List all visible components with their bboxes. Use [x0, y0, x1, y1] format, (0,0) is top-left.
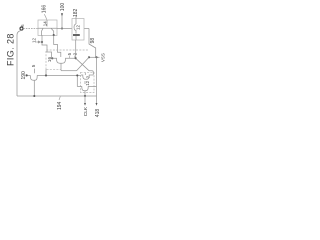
svg-text:5: 5 — [67, 52, 72, 55]
transistor Q2 source lead down — [60, 63, 62, 70]
svg-text:16: 16 — [47, 57, 53, 63]
wire: cross bottom-left going left to Q2 source — [61, 70, 77, 72]
arrowhead on supply lead — [61, 13, 63, 16]
label 152 tick — [74, 56, 76, 59]
wire: right rail vertical — [96, 57, 98, 96]
junction dot bus/VDD — [61, 27, 63, 29]
terminal stub right — [96, 96, 98, 103]
svg-text:12: 12 — [85, 80, 90, 85]
wire: VSS horizontal — [89, 56, 100, 58]
junction dot input node — [41, 41, 43, 43]
wire: VDD supply lead — [61, 13, 63, 29]
wire: staircase from Q1 left leg to node 16 — [42, 36, 52, 58]
capacitor-transistor box 182 — [72, 19, 84, 41]
junction dot bit line / Q5 branch — [76, 74, 78, 76]
transistor Q2 (mid) channel with U dip — [52, 58, 75, 63]
wire: staircase from Q1 right leg to gate of Q2 — [54, 36, 61, 58]
svg-text:6: 6 — [20, 24, 25, 27]
wire: left bent-down branch from input — [17, 31, 21, 96]
arrowhead right terminal — [96, 103, 98, 106]
wire: right vertical drop 98 — [89, 29, 96, 58]
junction dot cross top-left — [75, 57, 77, 59]
dashed box 164 — [46, 50, 89, 70]
wire: bottom ground rail — [17, 95, 97, 97]
transistor Q3 source lead down — [33, 80, 35, 96]
svg-text:VSS: VSS — [100, 53, 105, 62]
transistor Q5 gate tick — [84, 81, 86, 84]
junction dot mid wire / box164 branch — [45, 74, 47, 76]
svg-text:12: 12 — [75, 25, 80, 30]
dashed box 192 (sense pair) — [81, 72, 95, 92]
wire: box182 down to cross node — [75, 40, 77, 58]
element in box 182: C-dip channel — [74, 24, 76, 34]
svg-text:194: 194 — [57, 101, 63, 110]
junction dot Q3 source/rail — [33, 95, 35, 97]
node dot left of Q3 — [26, 74, 28, 76]
element in box 182: plate bar — [73, 34, 80, 36]
svg-text:FIG. 28: FIG. 28 — [6, 33, 16, 66]
wire: left input to transistor box — [23, 28, 38, 30]
cross-coupling X diagonals — [76, 57, 89, 70]
svg-text:14: 14 — [42, 21, 47, 26]
wire: bus from box182 to right drop — [84, 28, 89, 30]
element in box 182: top lead — [75, 16, 77, 25]
junction dot Q1 right leg — [53, 34, 55, 36]
junction dot at right rail top — [95, 56, 97, 58]
transistor Q1 gate lead — [46, 20, 48, 27]
svg-text:12: 12 — [32, 37, 37, 43]
svg-text:CLK: CLK — [83, 106, 89, 116]
transistor Q3 (left) gate tick — [34, 69, 36, 74]
wire: branch up from mid wire to box164 — [45, 70, 47, 76]
transistor Q1 left leg — [42, 28, 44, 35]
terminal stub CL (bottom middle) — [84, 96, 86, 103]
svg-text:190: 190 — [21, 71, 27, 80]
transistor Q4 channel U dip — [81, 75, 93, 79]
label 194 with leader — [59, 97, 60, 101]
svg-text:98: 98 — [90, 38, 96, 44]
transistor Q5 source lead down to rail — [84, 91, 86, 96]
svg-text:2: 2 — [85, 75, 90, 78]
node 16 dot — [51, 57, 53, 59]
terminal phi (left input) — [20, 27, 23, 30]
label 150 tick — [68, 56, 70, 59]
svg-text:5: 5 — [31, 64, 36, 67]
svg-text:418: 418 — [95, 109, 101, 118]
svg-text:166: 166 — [41, 5, 47, 14]
junction dot at cross top-right — [88, 56, 90, 58]
transistor Q3 channel U dip — [30, 75, 37, 80]
transistor Q4 gate tick — [84, 73, 86, 75]
wire: long mid horizontal (bit line) — [27, 74, 81, 76]
svg-text:100: 100 — [60, 3, 66, 12]
wire: branch down from bit line to Q5 — [76, 75, 78, 86]
transistor Q1 right leg — [51, 28, 54, 35]
junction dot Q5/rail — [84, 95, 86, 97]
arrowhead CL — [84, 103, 86, 106]
wire: cross bottom-right to corner into box — [89, 71, 93, 75]
input arrow 12 — [36, 41, 40, 43]
transistor Q1 channel — [38, 27, 57, 29]
element in box 182: bottom lead — [75, 36, 77, 40]
leader 166 — [44, 14, 46, 20]
transistor Q5 channel U dip — [77, 87, 96, 91]
svg-text:2: 2 — [72, 52, 77, 55]
wire: bus from box166 to box182 — [57, 28, 72, 30]
transistor box 166 — [38, 20, 57, 36]
